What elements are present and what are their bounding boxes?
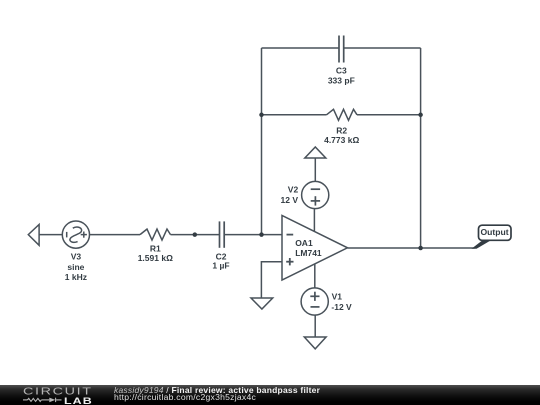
op-amp plus input symbol <box>286 258 293 265</box>
wire top feedback right segment <box>344 47 421 49</box>
wire C2 to op-amp minus input <box>224 234 282 236</box>
wire op-amp output <box>348 247 475 249</box>
op-amp minus input symbol <box>287 234 294 236</box>
resistor R2 <box>327 109 358 120</box>
node junction left R2/C3 <box>259 113 264 118</box>
footer logo <box>0 384 112 405</box>
footer line 2 <box>114 392 534 402</box>
svg-text:R2: R2 <box>336 125 347 135</box>
ground below plus input <box>251 298 273 309</box>
wire R2 row right <box>357 114 421 116</box>
node junction R1/C2 <box>193 232 198 237</box>
wire V1 to ground <box>314 315 316 337</box>
resistor R1 <box>140 229 171 240</box>
svg-text:LAB: LAB <box>64 397 93 405</box>
wire right vertical of feedback loop <box>420 48 422 248</box>
svg-text:Output: Output <box>481 227 509 237</box>
wire V3 to R1 <box>90 234 141 236</box>
ground (left) at input <box>28 225 39 246</box>
svg-text:C3: C3 <box>336 66 347 76</box>
wire top feedback left segment <box>262 47 340 49</box>
footer bar <box>0 385 540 405</box>
ground (up) above V2 <box>305 147 326 158</box>
svg-text:1.591 kΩ: 1.591 kΩ <box>138 253 173 263</box>
svg-text:333 pF: 333 pF <box>328 75 355 85</box>
wire ground to V2 <box>314 158 316 182</box>
svg-text:4.773 kΩ: 4.773 kΩ <box>324 135 359 145</box>
svg-text:1 kHz: 1 kHz <box>65 272 87 282</box>
svg-text:V2: V2 <box>288 185 299 195</box>
wire V2 to op-amp top pin <box>313 209 315 232</box>
svg-text:R1: R1 <box>150 244 161 254</box>
node junction input/feedback <box>259 232 264 237</box>
node junction output <box>418 246 423 251</box>
wire ground to V3 <box>39 234 62 236</box>
svg-text:V1: V1 <box>332 292 343 302</box>
voltage source V2 <box>302 181 329 208</box>
voltage source V3 (sine) <box>62 221 89 248</box>
svg-text:-12 V: -12 V <box>331 302 352 312</box>
svg-text:12 V: 12 V <box>281 195 299 205</box>
wire R2 row left <box>262 114 327 116</box>
capacitor C3 <box>339 36 344 63</box>
node junction right R2/C3 <box>418 113 423 118</box>
wire left vertical of feedback loop <box>261 48 263 235</box>
svg-text:CIRCUIT: CIRCUIT <box>23 385 93 397</box>
svg-text:OA1: OA1 <box>295 238 313 248</box>
wire R1 to C2 <box>171 234 220 236</box>
op-amp OA1 <box>282 216 348 281</box>
svg-text:LM741: LM741 <box>295 248 322 258</box>
svg-text:sine: sine <box>67 262 84 272</box>
ground below V1 <box>304 337 326 349</box>
capacitor C2 <box>220 221 225 247</box>
wire op-amp plus input to ground <box>261 262 282 298</box>
svg-text:V3: V3 <box>71 252 82 262</box>
voltage source V1 <box>301 288 328 315</box>
output flag <box>472 225 512 249</box>
footer line 1 <box>114 385 534 395</box>
svg-text:1 µF: 1 µF <box>212 261 229 271</box>
wire op-amp bottom pin to V1 <box>314 264 316 288</box>
